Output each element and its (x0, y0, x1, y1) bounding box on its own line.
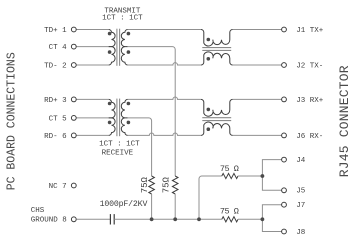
svg-text:1000pF/2KV: 1000pF/2KV (100, 199, 148, 209)
wire T2 secondary bottom to choke L2 with crossover hops (128, 133, 201, 135)
svg-text:NC 7: NC 7 (49, 183, 67, 191)
wire choke L2 to J6 (233, 134, 282, 136)
wire bus to J7/J8 junction (238, 218, 262, 220)
svg-text:75 Ω: 75 Ω (220, 207, 239, 217)
pin 2 terminal TD- (71, 63, 76, 68)
pin J2 TX- (282, 63, 287, 68)
wire J7/J8 bracket (262, 205, 281, 232)
svg-text:J8: J8 (296, 229, 305, 237)
transformer T2 primary winding (109, 99, 115, 118)
pin J5 (282, 188, 287, 193)
capacitor C1 1000pF/2KV (109, 214, 111, 224)
wire ground bus (114, 218, 222, 220)
junction dot J4/J5 (261, 174, 265, 178)
transformer T2 polarity dots (108, 102, 112, 106)
svg-text:1CT : 1CT: 1CT : 1CT (102, 14, 143, 22)
wire T2 secondary top to choke L2 with crossover hop (128, 97, 201, 99)
pin J8 (282, 229, 287, 234)
resistor R1 75 ohm (RX center tap) (149, 176, 155, 194)
svg-text:75 Ω: 75 Ω (220, 164, 239, 174)
wire pin1 TD+ (76, 29, 108, 31)
svg-text:J6 RX-: J6 RX- (296, 133, 323, 141)
common-mode choke L1 transmit (201, 30, 233, 47)
svg-text:J4: J4 (296, 157, 306, 165)
svg-text:CHS: CHS (31, 207, 45, 215)
pin 4 terminal CT (71, 44, 76, 49)
svg-text:RECEIVE: RECEIVE (102, 150, 134, 158)
svg-text:CT 5: CT 5 (49, 115, 68, 123)
pin 5 terminal CT (71, 116, 76, 121)
resistor R4 75 ohm in bus (222, 217, 238, 222)
pin 8 terminal CHS GROUND (71, 217, 76, 222)
junction dot R1 bus (150, 217, 154, 221)
svg-text:TD+ 1: TD+ 1 (44, 27, 67, 35)
svg-text:RD+ 3: RD+ 3 (44, 97, 67, 105)
svg-text:J3 RX+: J3 RX+ (296, 97, 324, 105)
wire J4/J5 bracket (262, 160, 281, 191)
wire pin2 TD- (76, 64, 108, 66)
pin 1 terminal TD+ (71, 27, 76, 32)
wire riser from bus to resistor R3 (199, 176, 222, 219)
pin J4 (282, 157, 287, 162)
pin J7 (282, 202, 287, 207)
svg-text:J2 TX-: J2 TX- (296, 62, 323, 70)
svg-text:1CT : 1CT: 1CT : 1CT (99, 141, 140, 149)
common-mode choke L2 receive (201, 99, 233, 116)
wire pin4 CT (76, 46, 111, 48)
transformer T2 core (116, 99, 118, 137)
wire T2 secondary center tap (128, 118, 152, 176)
svg-text:PC BOARD CONNECTIONS: PC BOARD CONNECTIONS (6, 52, 19, 190)
wire T1 secondary top to choke L1 (128, 29, 201, 31)
junction dot riser bus (197, 217, 201, 221)
svg-text:J7: J7 (296, 202, 305, 210)
wire pin3 RD+ (76, 98, 108, 100)
junction dot J7/J8 (261, 217, 265, 221)
svg-text:75Ω: 75Ω (162, 176, 172, 193)
junction dot R2 bus (173, 217, 177, 221)
wire pin6 RD- (76, 134, 108, 136)
svg-text:RD- 6: RD- 6 (44, 133, 67, 141)
wire T1 secondary center tap (128, 47, 176, 176)
svg-text:J5: J5 (296, 188, 306, 196)
wire pin5 CT (76, 117, 111, 119)
choke L1 polarity dots (207, 38, 211, 42)
svg-text:CT 4: CT 4 (49, 44, 68, 52)
transformer T1 polarity dots (108, 32, 112, 36)
wire T1 secondary bottom to choke L1 with crossover hop (128, 63, 201, 65)
pin J1 TX+ (282, 27, 287, 32)
svg-text:TD- 2: TD- 2 (44, 62, 67, 70)
svg-text:GROUND 8: GROUND 8 (31, 217, 67, 225)
wire choke L1 to J2 (233, 64, 282, 66)
wire choke L1 to J1 (233, 29, 282, 31)
resistor R3 75 ohm to J4/J5 (222, 173, 238, 178)
svg-text:J1 TX+: J1 TX+ (296, 27, 324, 35)
transformer T1 primary winding (109, 30, 115, 47)
pin 7 terminal NC (71, 183, 76, 188)
pin 3 terminal RD+ (71, 97, 76, 102)
transformer T1 core (116, 29, 118, 66)
choke L2 polarity dots (207, 108, 211, 112)
wire choke L2 to J3 (233, 98, 282, 100)
svg-text:RJ45 CONNECTOR: RJ45 CONNECTOR (337, 65, 352, 177)
pin J6 RX- (282, 133, 287, 138)
svg-text:75Ω: 75Ω (140, 176, 150, 193)
wire resistor R3 to J4/J5 junction (238, 175, 262, 177)
wire pin8 to capacitor C1 (76, 218, 110, 220)
pin 6 terminal RD- (71, 133, 76, 138)
resistor R2 75 ohm (TX center tap) (172, 176, 178, 194)
pin J3 RX+ (282, 97, 287, 102)
